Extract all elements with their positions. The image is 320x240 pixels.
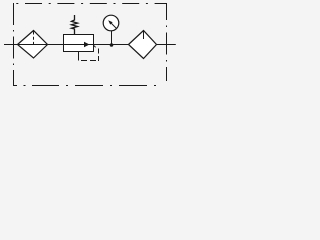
lubricator L drip line: [143, 31, 145, 40]
enclosure right edge: [166, 3, 168, 86]
regulator R pilot tap (diagonal tick at pipe): [94, 45, 96, 47]
gauge G needle: [111, 23, 116, 28]
regulator R (valve body): [64, 35, 94, 52]
filter F element (dashed strainer line): [33, 32, 35, 45]
filter F (diamond body): [18, 31, 48, 59]
wire: inlet pipe through filter: [4, 44, 63, 46]
junction node (gauge tap): [110, 43, 114, 47]
gauge G (pressure gauge dial): [103, 15, 119, 31]
enclosure bottom edge: [13, 85, 167, 87]
wire: outlet pipe: [157, 44, 176, 46]
regulator R pilot feedback (dashed segments): [81, 60, 87, 62]
lubricator L (diamond body): [129, 31, 157, 59]
regulator R spring (adjustment): [72, 15, 78, 35]
wire: gauge stem: [111, 31, 113, 45]
enclosure left edge: [13, 3, 15, 86]
regulator R pilot drop (solid): [78, 52, 80, 61]
enclosure (FRL service-unit boundary, dash-dot) top edge: [13, 3, 167, 5]
regulator R flow arrow: [63, 44, 93, 46]
wire: regulator to lubricator: [93, 44, 129, 46]
